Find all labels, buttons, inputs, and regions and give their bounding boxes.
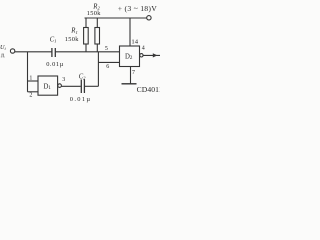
svg-text:150k: 150k (87, 10, 101, 17)
svg-text:3: 3 (62, 77, 65, 83)
svg-text:7: 7 (132, 70, 135, 76)
svg-text:150k: 150k (65, 36, 79, 43)
svg-text:0.01µ: 0.01µ (46, 61, 64, 68)
svg-text:1: 1 (29, 76, 32, 82)
svg-text:0.01µ: 0.01µ (70, 96, 92, 103)
svg-text:5: 5 (105, 46, 108, 52)
svg-text:CD4011: CD4011 (137, 85, 160, 94)
svg-text:6: 6 (106, 64, 109, 70)
svg-text:4: 4 (142, 45, 145, 51)
svg-text:14: 14 (131, 38, 138, 45)
svg-text:+ (3 ~ 18)V: + (3 ~ 18)V (118, 4, 157, 13)
svg-text:2: 2 (29, 93, 32, 99)
